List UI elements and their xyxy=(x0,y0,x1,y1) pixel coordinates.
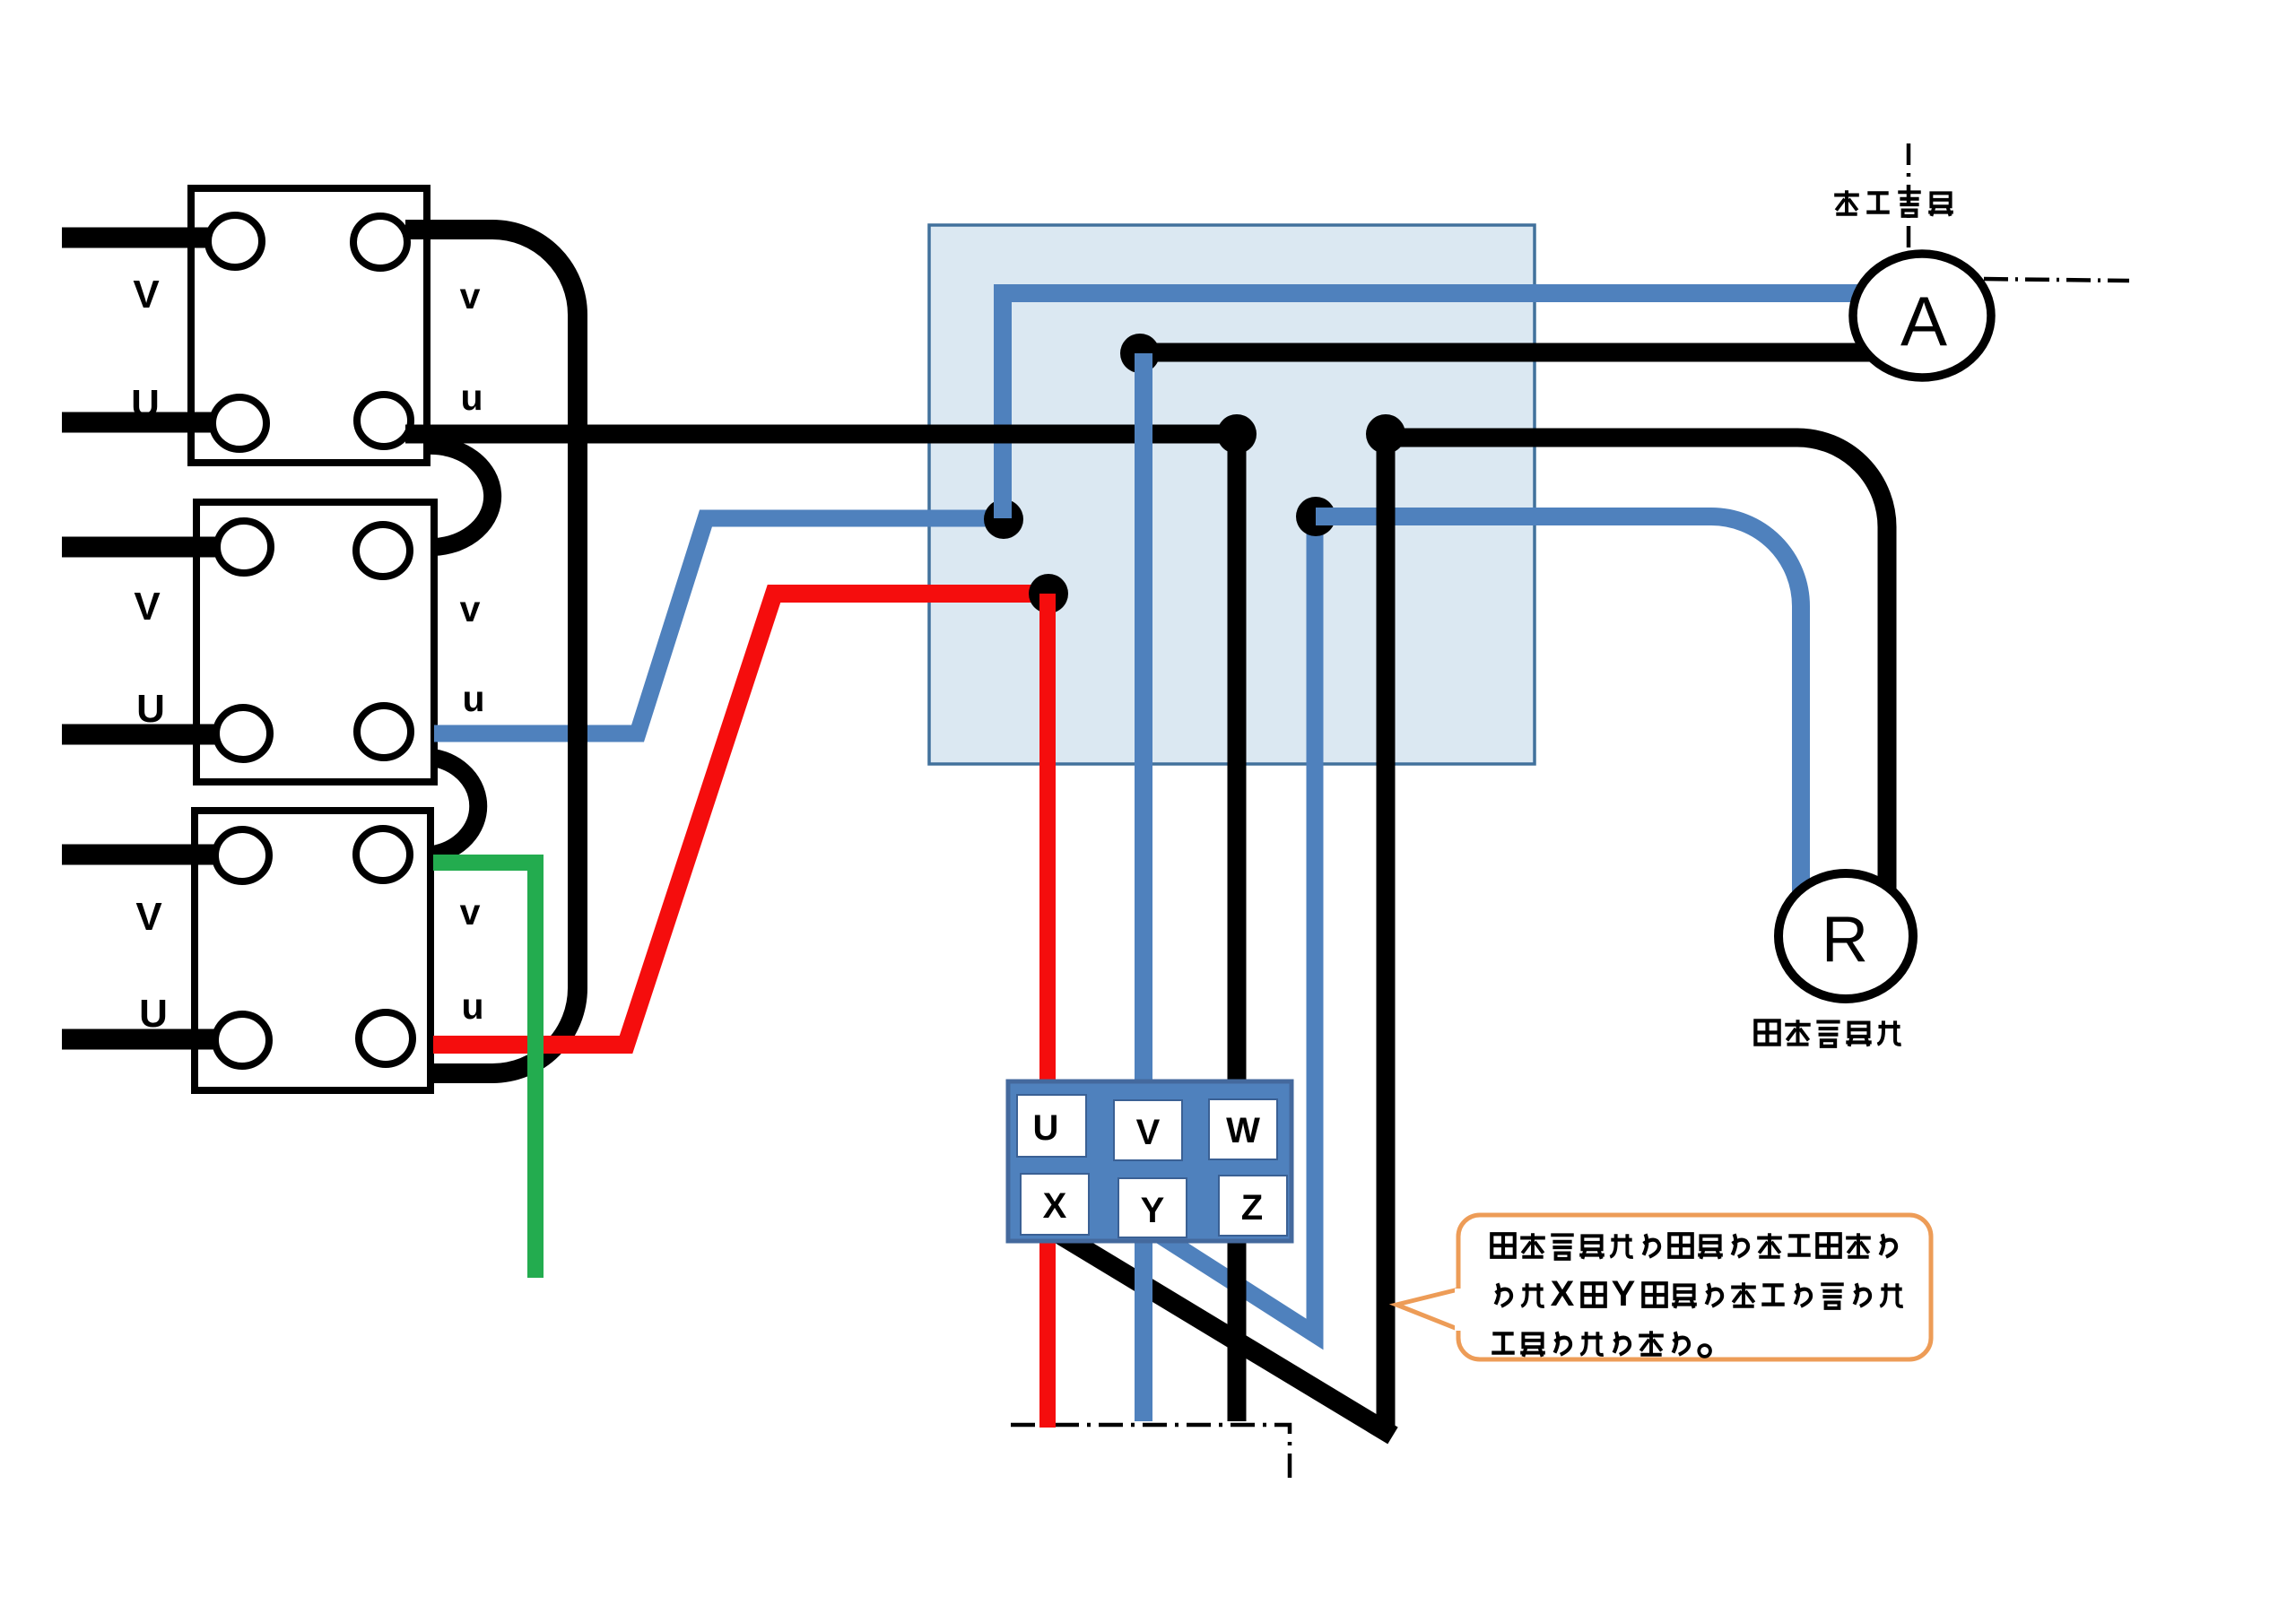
wire black vertical from X tap xyxy=(1377,434,1396,1432)
node X tap xyxy=(1366,414,1405,454)
svg-text:u: u xyxy=(461,985,483,1027)
svg-text:v: v xyxy=(460,891,481,933)
terminal CT3 circles xyxy=(215,829,413,1066)
wire L2 feed bottom xyxy=(62,725,224,745)
wire black to ammeter xyxy=(1140,343,1883,362)
callout text line2 xyxy=(1496,1274,1903,1314)
terminal cell V xyxy=(1114,1100,1182,1160)
terminal CT1 circles xyxy=(208,215,411,449)
wire red U-phase from CT3-u xyxy=(433,594,1048,1045)
node W tap xyxy=(1217,414,1257,454)
node A tap xyxy=(1120,334,1160,373)
wire red vertical to terminal U xyxy=(1039,594,1056,1428)
svg-text:Y: Y xyxy=(1141,1191,1165,1230)
callout bubble seam cover xyxy=(1455,1289,1462,1331)
svg-text:u: u xyxy=(460,377,483,418)
transformer CT1 box xyxy=(191,188,427,463)
callout bubble tail xyxy=(1396,1289,1462,1331)
svg-text:u: u xyxy=(462,678,484,719)
svg-text:v: v xyxy=(460,588,481,629)
label unten hyoujitou (run indicator lamp) xyxy=(1755,1020,1900,1046)
wire jumper CT1u-CT2v arc xyxy=(428,446,492,547)
node blue lamp junction xyxy=(1296,497,1335,536)
svg-text:V: V xyxy=(135,895,162,939)
wire L3 feed top xyxy=(62,845,224,865)
wire green ground from CT3-v xyxy=(433,863,535,1278)
svg-text:R: R xyxy=(1822,904,1868,976)
wire jumper CT2u-CT3v arc xyxy=(433,758,478,855)
wire L3 feed bottom xyxy=(62,1029,224,1050)
panel (light blue control box) xyxy=(929,225,1535,764)
wire black diagonal from terminal X xyxy=(1053,1230,1393,1436)
callout bubble box xyxy=(1458,1215,1931,1359)
callout text line3 xyxy=(1492,1331,1710,1357)
transformer CT3 box xyxy=(195,811,430,1090)
dash-dot line above ammeter xyxy=(1907,143,1911,252)
terminal cell Z xyxy=(1219,1176,1287,1236)
wire blue to run lamp R xyxy=(1316,516,1801,904)
svg-text:X: X xyxy=(1551,1274,1575,1314)
dash-dot motor boundary bottom xyxy=(1011,1425,1290,1480)
run lamp R xyxy=(1779,873,1913,999)
transformer CT2 box xyxy=(196,502,434,782)
dash-dot line right of ammeter xyxy=(1984,279,2129,281)
terminal cell U xyxy=(1017,1095,1086,1157)
wire black long from CT1-u xyxy=(405,425,1237,444)
svg-text:U: U xyxy=(131,382,160,426)
wire blue from CT2-u xyxy=(434,518,1004,733)
svg-text:V: V xyxy=(133,273,160,317)
wire black W-phase from CT1-v down right side xyxy=(405,230,578,1073)
svg-text:X: X xyxy=(1043,1186,1067,1226)
wire black vertical to terminal W xyxy=(1228,434,1247,1421)
svg-text:A: A xyxy=(1900,282,1947,360)
wire L2 feed top xyxy=(62,537,224,558)
wire blue up and right to ammeter xyxy=(1003,293,1882,518)
callout text line1 xyxy=(1492,1233,1896,1259)
svg-text:U: U xyxy=(1033,1108,1059,1148)
svg-text:V: V xyxy=(1136,1113,1161,1152)
svg-text:Z: Z xyxy=(1241,1188,1263,1228)
svg-text:W: W xyxy=(1226,1111,1260,1150)
svg-text:U: U xyxy=(139,992,168,1036)
wire blue V-phase vertical to terminal V xyxy=(1135,353,1152,1421)
terminal cell X xyxy=(1021,1174,1089,1235)
ammeter A xyxy=(1853,254,1991,378)
wire L1 feed top xyxy=(62,228,215,248)
terminal block body xyxy=(1008,1081,1291,1241)
svg-text:Y: Y xyxy=(1612,1274,1636,1314)
wire L1 feed bottom xyxy=(62,412,220,433)
label sekou shouryaku (construction omitted) xyxy=(1834,190,1953,216)
svg-text:U: U xyxy=(136,687,165,731)
terminal cell Y xyxy=(1118,1178,1187,1237)
wire blue lamp branch diagonal from terminal Y xyxy=(1151,516,1315,1334)
terminal CT2 circles xyxy=(216,521,411,759)
svg-text:V: V xyxy=(134,585,161,629)
node blue junction left xyxy=(984,499,1023,539)
svg-text:v: v xyxy=(460,275,481,317)
node red junction xyxy=(1029,574,1068,613)
wire black to run lamp R xyxy=(1386,438,1887,907)
terminal cell W xyxy=(1209,1099,1277,1159)
